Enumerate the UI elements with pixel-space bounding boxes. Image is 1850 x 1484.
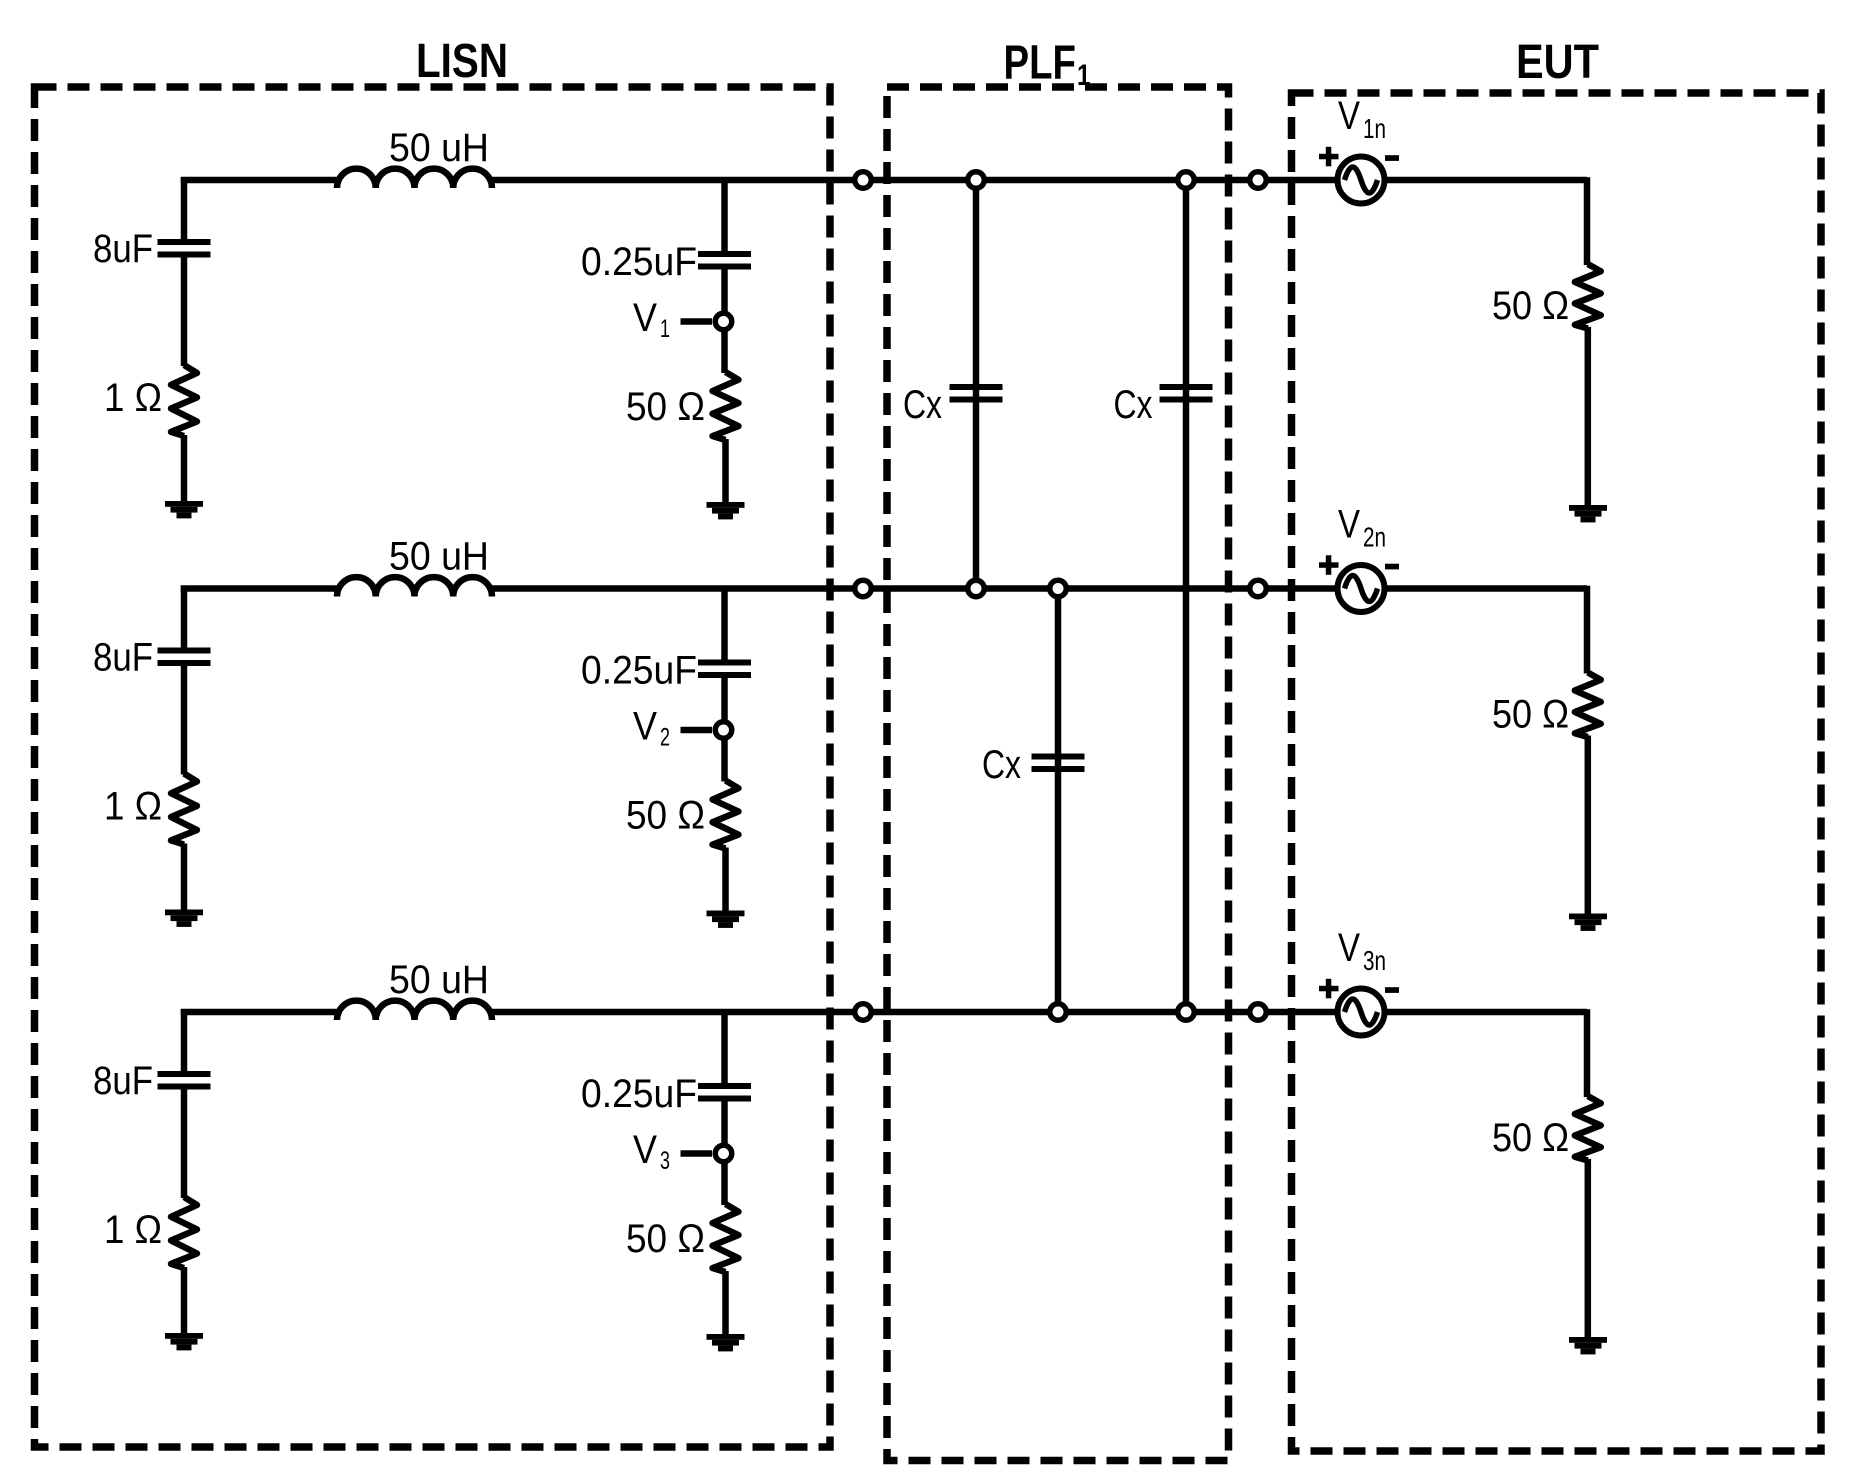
ground EUT row2 [1569,914,1607,931]
label plus of V3n [1319,979,1339,999]
wire row3 EUT to ground [1585,1159,1592,1338]
svg-text:0.25uF: 0.25uF [581,1072,697,1116]
svg-text:0.25uF: 0.25uF [581,240,697,284]
resistor 1 Ohm row2 [171,774,197,845]
wire row2 50ohm to ground [722,848,729,912]
label 50 uH row2 [389,535,489,579]
svg-text:50 uH: 50 uH [389,958,489,1002]
inductor L3 50 uH [337,1001,492,1020]
wire row3 50ohm to ground [722,1271,729,1335]
wire row3 1ohm to ground [181,1267,188,1334]
svg-text:8uF: 8uF [93,1059,153,1103]
wire Cx2 vertical (line1-line3) [1183,180,1190,1012]
label V3n [1338,926,1386,976]
label 1 Ohm row1 [104,376,162,420]
LISN boundary box [35,87,831,1447]
label 1 Ohm row3 [104,1208,162,1252]
inductor L2 50 uH [337,577,492,596]
node terminal row2 x976 [968,580,985,597]
svg-text:1 Ω: 1 Ω [104,376,162,420]
wire row3 node to 50ohm [721,1162,728,1205]
label V1 [633,296,670,343]
label 50 Ohm EUT row1 [1492,284,1569,328]
resistor 50 Ohm EUT row3 [1575,1096,1601,1161]
wire row1 source to corner [1384,177,1587,184]
wire row3 8uF to 1ohm [181,1089,188,1199]
label Cx1 [903,383,942,427]
node terminal row1 x976 [968,172,985,189]
capacitor Cx2 plates [1160,384,1213,403]
node terminal row3 x1258 [1250,1004,1267,1021]
voltage source V3n [1338,989,1385,1036]
wire row2 1ohm to ground [181,844,188,911]
svg-text:V: V [1338,94,1360,138]
label 0.25uF row3 [581,1072,697,1116]
svg-text:LISN: LISN [416,35,508,88]
svg-text:V: V [633,296,657,340]
svg-text:50 Ω: 50 Ω [1492,284,1569,328]
wire row3 source to corner [1384,1009,1587,1016]
capacitor Cx1 plates [950,384,1003,403]
label 50 Ohm LISN row1 [626,385,705,429]
wire lead of node V3 [681,1150,713,1157]
resistor 1 Ohm row1 [171,365,197,436]
wire row2 EUT vertical [1584,586,1591,674]
label 0.25uF row1 [581,240,697,284]
wire branch row1 mid vertical [721,177,728,252]
wire row1 50ohm to ground [722,439,729,503]
capacitor 0.25uF row3 [698,1083,751,1102]
resistor 50 Ohm LISN row1 [713,372,739,440]
wire row3 cap to node V3 [721,1101,728,1145]
svg-text:1n: 1n [1363,113,1386,144]
wire row1 EUT to ground [1585,327,1592,506]
wire branch row3 left vertical [181,1009,188,1071]
node terminal row1 x1186 [1178,172,1195,189]
label EUT [1516,36,1599,89]
wire branch row2 mid vertical [721,586,728,661]
label minus of V1n [1385,155,1399,161]
svg-text:1 Ω: 1 Ω [104,785,162,829]
resistor 50 Ohm LISN row3 [713,1204,739,1272]
label plus of V2n [1319,555,1339,575]
label LISN [416,35,508,88]
ground LISN-mid row2 [707,911,745,928]
capacitor 8uF row3 [158,1071,211,1090]
svg-text:3n: 3n [1363,945,1386,976]
label 8uF row1 [93,227,153,271]
wire row2 source to corner [1384,585,1587,592]
label 1 Ohm row2 [104,785,162,829]
svg-text:V: V [633,705,657,749]
label minus of V2n [1385,564,1399,570]
resistor 50 Ohm EUT row1 [1575,264,1601,329]
label 50 Ohm LISN row2 [626,794,705,838]
label V2 [633,705,670,752]
svg-text:1: 1 [660,315,670,343]
svg-text:50 uH: 50 uH [389,126,489,170]
wire row1 left segment [181,177,340,184]
wire row2 node to 50ohm [721,739,728,782]
label 8uF row3 [93,1059,153,1103]
svg-text:0.25uF: 0.25uF [581,649,697,693]
label plus of V1n [1319,147,1339,167]
svg-text:V: V [633,1128,657,1172]
label 50 Ohm EUT row3 [1492,1116,1569,1160]
svg-text:50 Ω: 50 Ω [626,385,705,429]
wire row3 main segment [489,1009,1338,1016]
node V3 terminal [715,1145,732,1162]
wire row3 left segment [181,1009,340,1016]
svg-text:V: V [1338,926,1360,970]
svg-text:Cx: Cx [982,743,1021,787]
label V1n [1338,94,1386,144]
wire Cx1 vertical (line1-line2) [973,180,980,589]
ground EUT row1 [1569,505,1607,522]
svg-text:1 Ω: 1 Ω [104,1208,162,1252]
ground LISN-left row3 [165,1333,203,1350]
svg-text:Cx: Cx [903,383,942,427]
wire branch row3 mid vertical [721,1009,728,1084]
svg-text:3: 3 [660,1147,670,1175]
node terminal row1 x1258 [1250,172,1267,189]
wire Cx3 vertical (line2-line3) [1055,589,1062,1013]
wire branch row2 left vertical [181,586,188,648]
label PLF1 [1004,37,1091,93]
wire row1 1ohm to ground [181,435,188,502]
capacitor 0.25uF row2 [698,660,751,679]
svg-text:50 Ω: 50 Ω [1492,1116,1569,1160]
voltage source V1n [1338,157,1385,204]
capacitor Cx3 plates [1032,754,1085,773]
label V2n [1338,503,1386,553]
svg-text:PLF: PLF [1004,37,1077,90]
node terminal row3 x1186 [1178,1004,1195,1021]
ground LISN-mid row1 [707,502,745,519]
wire row1 8uF to 1ohm [181,257,188,367]
label Cx3 [982,743,1021,787]
wire row1 cap to node V1 [721,269,728,313]
wire row1 node to 50ohm [721,330,728,373]
inductor L1 50 uH [337,169,492,188]
wire lead of node V1 [681,318,713,325]
ground LISN-mid row3 [707,1334,745,1351]
svg-text:50 Ω: 50 Ω [626,794,705,838]
svg-text:1: 1 [1077,59,1091,92]
node terminal row2 x1258 [1250,580,1267,597]
wire row2 cap to node V2 [721,678,728,722]
wire row2 main segment [489,585,1338,592]
svg-text:Cx: Cx [1114,383,1153,427]
voltage source V2n [1338,565,1385,612]
label 0.25uF row2 [581,649,697,693]
svg-text:8uF: 8uF [93,227,153,271]
ground LISN-left row2 [165,910,203,927]
wire row3 EUT vertical [1584,1009,1591,1097]
svg-text:EUT: EUT [1516,36,1599,89]
svg-text:50 uH: 50 uH [389,535,489,579]
capacitor 0.25uF row1 [698,251,751,270]
node terminal row3 x863 [855,1004,872,1021]
label minus of V3n [1385,987,1399,993]
svg-text:50 Ω: 50 Ω [626,1217,705,1261]
label 50 Ohm LISN row3 [626,1217,705,1261]
capacitor 8uF row1 [158,239,211,258]
wire row2 left segment [181,585,340,592]
wire row2 8uF to 1ohm [181,665,188,775]
PLF1 boundary box [887,87,1229,1461]
node V1 terminal [715,313,732,330]
svg-text:2: 2 [660,724,670,752]
label Cx2 [1114,383,1153,427]
label 50 Ohm EUT row2 [1492,693,1569,737]
svg-text:50 Ω: 50 Ω [1492,693,1569,737]
label V3 [633,1128,670,1175]
ground LISN-left row1 [165,501,203,518]
capacitor 8uF row2 [158,648,211,667]
wire branch row1 left vertical [181,177,188,239]
label 50 uH row3 [389,958,489,1002]
svg-text:V: V [1338,503,1360,547]
wire row2 EUT to ground [1585,736,1592,915]
ground EUT row3 [1569,1337,1607,1354]
resistor 50 Ohm LISN row2 [713,781,739,849]
node terminal row2 x863 [855,580,872,597]
EUT boundary box [1292,93,1822,1451]
wire lead of node V2 [681,727,713,734]
svg-text:2n: 2n [1363,522,1386,553]
wire row1 EUT vertical [1584,177,1591,265]
label 50 uH row1 [389,126,489,170]
node V2 terminal [715,722,732,739]
node terminal row1 x863 [855,172,872,189]
svg-text:8uF: 8uF [93,636,153,680]
label 8uF row2 [93,636,153,680]
resistor 1 Ohm row3 [171,1197,197,1268]
resistor 50 Ohm EUT row2 [1575,673,1601,738]
wire row1 main segment [489,177,1338,184]
node terminal row3 x1058 [1050,1004,1067,1021]
node terminal row2 x1058 [1050,580,1067,597]
